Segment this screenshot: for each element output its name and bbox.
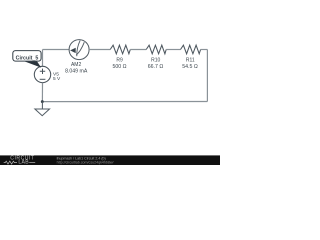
voltage source V5 <box>34 66 50 82</box>
ground <box>35 102 50 116</box>
svg-text:500 Ω: 500 Ω <box>113 64 127 70</box>
wire from V5 top up to top-left corner <box>42 50 44 67</box>
footer logo zigzag <box>4 161 17 164</box>
wire R10 to R11 <box>166 49 180 51</box>
svg-text:R11: R11 <box>186 58 195 64</box>
svg-text:8.049 mA: 8.049 mA <box>65 69 88 75</box>
resistor R9 <box>110 45 130 54</box>
svg-text:LAB: LAB <box>18 160 29 165</box>
callout box Circuit_5 <box>13 51 41 62</box>
resistor R11 <box>181 45 201 54</box>
wire top rail to ammeter <box>43 49 70 51</box>
footer logo dash after LAB <box>29 162 35 164</box>
wire right rail <box>206 50 208 102</box>
wire R11 to top-right corner <box>201 49 208 51</box>
svg-text:54.5 Ω: 54.5 Ω <box>182 64 198 70</box>
svg-text:Circuit_5: Circuit_5 <box>16 55 39 61</box>
footer bar <box>0 155 220 165</box>
svg-text:http://circuitlab.com/csu24qk4: http://circuitlab.com/csu24qk4hb8w/ <box>57 160 114 164</box>
svg-text:R10: R10 <box>151 58 160 64</box>
svg-text:5 V: 5 V <box>53 76 61 82</box>
junction node dot <box>41 100 44 103</box>
wire ammeter to R9 <box>89 49 110 51</box>
ammeter AM2 <box>69 40 89 60</box>
svg-text:R9: R9 <box>116 58 123 64</box>
callout pointer <box>24 61 42 68</box>
wire V5 bottom to ground junction <box>41 83 43 102</box>
svg-text:AM2: AM2 <box>71 62 82 68</box>
wire bottom rail <box>42 101 207 103</box>
svg-text:66.7 Ω: 66.7 Ω <box>148 64 164 70</box>
resistor R10 <box>146 45 166 54</box>
wire R9 to R10 <box>130 49 146 51</box>
